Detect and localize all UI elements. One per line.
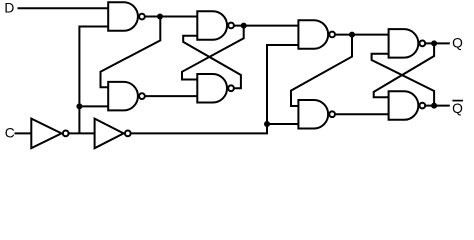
wire U7 output cross down to U8 top input [374,43,434,97]
wire U2 output to U4 bottom input [145,95,198,97]
wire U3 output cross down to U4 top input [182,26,244,80]
node Qm (junction on U3 output) [241,23,247,29]
nand U5 (slave D gate, top) [298,20,335,49]
wire U5 output to U7 top input [335,34,389,36]
nand U4 (master latch bottom) [197,74,234,103]
node CK2 (junction clock2 to U6) [264,121,270,127]
wire U8 output cross up to U7 bottom input [372,54,435,106]
wire D input [18,7,109,9]
node Qbar (junction on U8 output) [431,103,437,109]
node S2 (junction on U5 output) [349,32,355,38]
wire clock2 branch to U6 bottom input [267,123,298,125]
wire clock1 branch to U2 bottom input [79,105,108,107]
wire U5 output down to U6 top input [291,35,352,106]
wire U3 output to U5 top input [234,25,299,27]
wire U4 output cross up to U3 bottom input [183,36,241,89]
nand U3 (master latch top) [197,11,234,40]
wire U6 output to U8 bottom input [335,113,389,115]
wire C input [15,132,32,134]
label Qbar (inverted output) [452,101,463,116]
wire U1 output down to U2 top input [101,17,161,88]
node S1 (junction on U1 output) [157,14,163,20]
inverter N2 (clock buffer) [95,119,131,149]
svg-text:Q: Q [452,101,463,116]
nand U7 (output latch top, Q) [389,29,426,57]
svg-text:Q: Q [452,35,463,50]
wire N1 output to N2 [69,132,95,134]
svg-text:C: C [5,125,15,140]
inverter N1 (clock inverter) [31,119,68,149]
nand U6 (slave reset gate, bottom) [298,100,335,129]
node Q (junction on U7 output) [431,40,437,46]
wire U1 output to U3 [145,16,198,18]
nand U2 (master reset gate, bottom-left) [108,82,145,111]
node CK1 (junction clock1 to U2) [76,103,82,109]
wire N2 output clock2 riser to U5 bottom input [131,45,299,133]
nand U8 (output latch bottom, Qbar) [389,91,426,120]
wire clock1 riser to U1 bottom input [79,27,108,134]
wire U8 output to Qbar [425,105,450,107]
svg-text:D: D [4,1,14,16]
nand U1 (master D gate, top-left) [108,2,145,31]
wire U7 output to Q [425,42,450,44]
